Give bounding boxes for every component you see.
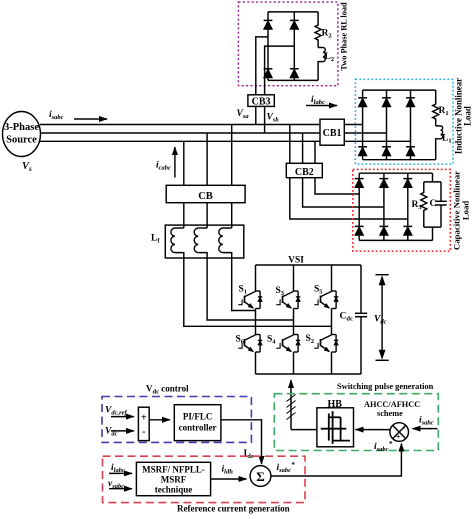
wire Lf phase3 to VSI leg1 bbox=[232, 258, 256, 311]
diode inductive leg1 top bbox=[358, 98, 367, 107]
comparator circle bbox=[390, 423, 409, 442]
svg-text:CB: CB bbox=[198, 191, 213, 202]
svg-text:3-Phase: 3-Phase bbox=[4, 122, 39, 133]
inductor Lf coil3 bbox=[219, 228, 232, 258]
wire inductive bridge leg2 bbox=[386, 90, 388, 160]
transistor S6 bbox=[238, 335, 262, 353]
diode inductive leg2 top bbox=[382, 98, 391, 107]
wire bridge bottom rail bbox=[268, 79, 318, 81]
inductor Lf coil2 bbox=[194, 228, 207, 258]
wire capacitive bridge leg3 bbox=[407, 173, 409, 240]
arrow icabc bbox=[174, 147, 176, 178]
svg-text:scheme: scheme bbox=[377, 409, 403, 418]
diode capacitive leg3 top bbox=[403, 179, 412, 188]
svg-text:icabc: icabc bbox=[156, 161, 171, 172]
arrow isabc into comparator bbox=[413, 428, 438, 430]
diode capacitive leg2 bottom bbox=[380, 226, 389, 235]
wire capacitive bridge bottom rail bbox=[359, 239, 432, 241]
svg-text:S3: S3 bbox=[276, 286, 285, 297]
wire bus c to CB2 bbox=[314, 141, 316, 163]
diode capacitive leg1 bottom bbox=[355, 226, 364, 235]
wire CB to Lf coil3 bbox=[231, 203, 233, 228]
wire Lf phase2 to VSI leg2 bbox=[207, 258, 293, 320]
svg-text:isabc: isabc bbox=[49, 110, 64, 121]
diode D2 two-phase leg2 top bbox=[290, 20, 299, 29]
wire bus a to CB bbox=[231, 125, 233, 186]
svg-text:Load: Load bbox=[463, 106, 473, 126]
wire PI/FLC output to summing point bbox=[221, 420, 262, 464]
Vdc control box bbox=[102, 397, 251, 443]
wire VSI leg3 bottom bbox=[331, 352, 333, 374]
svg-text:ildh: ildh bbox=[222, 465, 234, 476]
svg-text:CB1: CB1 bbox=[323, 128, 342, 139]
resistor R3 bbox=[421, 182, 427, 227]
resistor R1 bbox=[433, 90, 439, 126]
wire Lf phase1 to VSI leg3 bbox=[184, 258, 332, 326]
wire bus b to CB2 bbox=[302, 133, 304, 163]
arrow comparator to HB bbox=[356, 429, 391, 431]
svg-text:Source: Source bbox=[6, 135, 37, 146]
svg-text:Two Phase RL load: Two Phase RL load bbox=[340, 2, 349, 71]
wire inductive bridge bottom rail bbox=[363, 159, 436, 161]
3-phase source circle bbox=[3, 112, 41, 157]
svg-text:R3: R3 bbox=[412, 200, 423, 211]
arrow ilabc into MSRF bbox=[109, 472, 132, 474]
diode D1 two-phase leg1 top bbox=[264, 20, 273, 29]
svg-text:PI/FLC: PI/FLC bbox=[183, 412, 213, 422]
wire bus phase b bbox=[40, 132, 387, 134]
wire VSI leg1 top bbox=[255, 265, 257, 291]
wire capacitive bridge leg2 bbox=[383, 173, 385, 240]
wire RC block to bottom rail bbox=[432, 227, 434, 240]
wire to RC block top bbox=[432, 173, 434, 182]
svg-text:Vdc: Vdc bbox=[374, 315, 387, 326]
diode inductive leg3 top bbox=[406, 98, 415, 107]
capacitive nonlinear load box bbox=[353, 169, 451, 251]
wire tap phase b to CB3 bbox=[265, 46, 295, 95]
svg-text:L1: L1 bbox=[442, 134, 452, 145]
filter inductor box Lf bbox=[165, 225, 244, 258]
label Capacitive Nonlinear Load bbox=[452, 171, 471, 250]
svg-text:CB3: CB3 bbox=[252, 97, 271, 108]
wire CB2 to capacitive leg1 bbox=[315, 178, 359, 194]
svg-text:ilabc: ilabc bbox=[311, 95, 325, 106]
circuit breaker CB2 bbox=[286, 163, 322, 178]
wire inductive bridge leg1 bbox=[362, 90, 364, 160]
svg-text:S5: S5 bbox=[314, 285, 323, 296]
MSRF technique block bbox=[136, 462, 210, 495]
wire bus b to CB bbox=[206, 133, 208, 185]
reference current generation box bbox=[103, 456, 306, 502]
svg-text:Cdc: Cdc bbox=[340, 312, 353, 323]
label AHCC/AFHCC scheme bbox=[364, 400, 420, 418]
diode inductive leg1 bottom bbox=[358, 147, 367, 156]
diode inductive leg3 bottom bbox=[406, 147, 415, 156]
circuit breaker CB3 bbox=[248, 95, 274, 108]
diode capacitive leg1 top bbox=[355, 179, 364, 188]
switching scheme box bbox=[274, 394, 438, 451]
svg-text:Vdc control: Vdc control bbox=[146, 384, 189, 396]
label Inductive Nonlinear Load bbox=[454, 78, 473, 154]
diode capacitive leg2 top bbox=[380, 179, 389, 188]
svg-text:MSRF: MSRF bbox=[161, 475, 187, 485]
wire VSI top rail bbox=[256, 264, 362, 266]
wire capacitive bridge top rail bbox=[359, 172, 432, 174]
svg-text:VSI: VSI bbox=[288, 256, 304, 266]
wire VSI leg2 top bbox=[293, 265, 295, 291]
transistor S2 bbox=[314, 335, 338, 353]
arrow Vdc into summer bbox=[111, 430, 134, 432]
diode D4 two-phase leg2 bottom bbox=[290, 69, 299, 78]
wire bridge top rail bbox=[268, 11, 318, 13]
svg-text:isabc: isabc bbox=[419, 416, 434, 427]
wire CB2 to capacitive leg2 bbox=[303, 178, 384, 207]
arrow vsabc into MSRF bbox=[109, 488, 132, 490]
wire bridge leg2 bbox=[293, 12, 295, 81]
transistor S1 bbox=[238, 291, 262, 309]
svg-text:Vdc,ref: Vdc,ref bbox=[105, 406, 128, 417]
diode inductive leg2 bottom bbox=[382, 147, 391, 156]
wire VSI right edge upper bbox=[360, 265, 362, 313]
svg-text:AHCC/AFHCC: AHCC/AFHCC bbox=[364, 400, 420, 409]
capacitor C bbox=[435, 182, 446, 227]
diode D3 two-phase leg1 bottom bbox=[264, 69, 273, 78]
svg-text:controller: controller bbox=[179, 423, 217, 433]
circuit breaker CB1 bbox=[320, 119, 344, 145]
transistor S4 bbox=[276, 335, 300, 353]
wire VSI leg2 mid bbox=[293, 309, 295, 335]
PI/FLC controller block bbox=[174, 405, 221, 441]
transistor S5 bbox=[314, 291, 338, 309]
wire RC block bottom bar bbox=[424, 226, 441, 228]
svg-text:Vdc: Vdc bbox=[105, 427, 118, 438]
wire inductive bridge top rail bbox=[363, 89, 436, 91]
arrow isabc bbox=[74, 118, 107, 120]
inductive nonlinear load box bbox=[355, 79, 453, 164]
wire tap phase a to CB3 bbox=[256, 37, 268, 95]
wire CB3 to bus a bbox=[255, 106, 257, 124]
wire CB3 to bus b bbox=[264, 106, 266, 133]
svg-text:R2: R2 bbox=[322, 29, 332, 40]
svg-text:+: + bbox=[141, 413, 147, 424]
svg-text:isabc*: isabc* bbox=[277, 461, 296, 474]
wire bridge leg1 bbox=[267, 12, 269, 81]
svg-text:technique: technique bbox=[155, 485, 193, 495]
inductor L2 bbox=[318, 48, 325, 81]
arrow ildh into summing point bbox=[211, 478, 247, 480]
svg-text:Load: Load bbox=[461, 201, 471, 220]
wire inductive bridge leg3 bbox=[410, 90, 412, 160]
svg-text:Idc: Idc bbox=[244, 449, 254, 460]
svg-text:Vs: Vs bbox=[22, 161, 32, 173]
svg-text:+: + bbox=[396, 432, 401, 442]
wire HB to VSI riser bbox=[291, 429, 317, 431]
svg-text:MSRF/ NFPLL-: MSRF/ NFPLL- bbox=[142, 465, 205, 475]
wire bus c to CB bbox=[183, 141, 185, 185]
inductor Lf coil1 bbox=[171, 228, 184, 258]
arrow reference current into comparator bbox=[271, 444, 401, 477]
wire VSI leg3 top bbox=[331, 265, 333, 291]
svg-text:S2: S2 bbox=[306, 334, 315, 345]
summer block bbox=[138, 407, 149, 440]
svg-text:Lf: Lf bbox=[151, 234, 160, 245]
transistor S3 bbox=[276, 291, 300, 309]
inductor L1 bbox=[436, 126, 443, 160]
wire CB2 to capacitive leg3 bbox=[290, 178, 408, 219]
wire bus phase c bbox=[40, 140, 411, 142]
Vdc measurement arrows bbox=[376, 275, 389, 361]
wire VSI bottom rail bbox=[256, 373, 362, 375]
wire VSI leg1 mid bbox=[255, 309, 257, 335]
svg-text:Vsa: Vsa bbox=[237, 109, 250, 120]
wire bus phase a bbox=[40, 124, 363, 126]
svg-text:S4: S4 bbox=[267, 335, 276, 346]
capacitor Cdc bbox=[355, 313, 367, 316]
svg-text:Reference current generation: Reference current generation bbox=[177, 504, 290, 514]
svg-text:Switching pulse generation: Switching pulse generation bbox=[337, 382, 434, 391]
arrow gate pulses into VSI bbox=[290, 380, 292, 430]
svg-text:Vsb: Vsb bbox=[267, 113, 280, 124]
svg-text:ilabc: ilabc bbox=[111, 463, 125, 474]
wire capacitive bridge leg1 bbox=[358, 173, 360, 240]
svg-text:-: - bbox=[142, 427, 145, 438]
svg-text:S1: S1 bbox=[239, 285, 248, 296]
wire VSI leg2 bottom bbox=[293, 352, 295, 374]
summing point sigma bbox=[250, 466, 271, 487]
wire RC block top bar bbox=[424, 181, 441, 183]
diode capacitive leg3 bottom bbox=[403, 226, 412, 235]
circuit breaker CB bbox=[166, 185, 245, 202]
wire VSI right edge lower bbox=[360, 317, 362, 374]
arrow ilabc bbox=[306, 105, 337, 107]
svg-text:R1: R1 bbox=[439, 106, 449, 117]
hysteresis block HB bbox=[317, 408, 354, 447]
wire bus a to CB2 bbox=[289, 125, 291, 164]
svg-text:L2: L2 bbox=[325, 52, 335, 63]
arrow Vdc,ref into summer bbox=[111, 416, 134, 418]
wire VSI leg3 mid bbox=[331, 309, 333, 335]
arrow summer to PI/FLC bbox=[149, 419, 170, 421]
resistor R2 bbox=[315, 12, 321, 48]
two phase RL load box bbox=[238, 2, 338, 86]
svg-text:-: - bbox=[402, 423, 405, 433]
bus hatch marks bbox=[287, 395, 296, 420]
wire VSI leg1 bottom bbox=[255, 352, 257, 374]
svg-text:Σ: Σ bbox=[256, 469, 265, 484]
svg-text:S6: S6 bbox=[236, 335, 245, 346]
wire CB to Lf coil2 bbox=[206, 203, 208, 228]
svg-text:CB2: CB2 bbox=[295, 167, 314, 178]
svg-text:C: C bbox=[430, 199, 437, 209]
wire CB to Lf coil1 bbox=[183, 203, 185, 228]
